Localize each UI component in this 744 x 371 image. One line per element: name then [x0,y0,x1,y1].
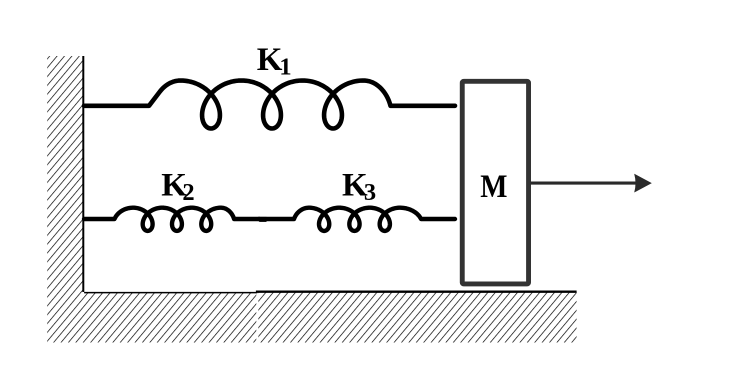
spring K1 (top spring, wall to mass) [84,81,455,129]
junction overlap on middle wire between K2 and K3 [259,217,266,222]
floor top edge line right segment [256,291,577,293]
arrow head [634,174,652,193]
wall (left fixed support, hatched) [47,56,84,292]
floor (ground, hatched) left segment [47,292,256,343]
floor top edge line left segment [84,292,257,294]
floor (ground, hatched) right segment [258,292,576,343]
mass M (block) [462,81,528,284]
arrow (force/displacement direction) shaft [531,182,637,185]
spring K3 (bottom-right spring) [259,208,455,231]
svg-text:M: M [480,169,507,205]
wall right edge line [82,56,84,292]
spring K2 (bottom-left spring) [84,208,259,231]
